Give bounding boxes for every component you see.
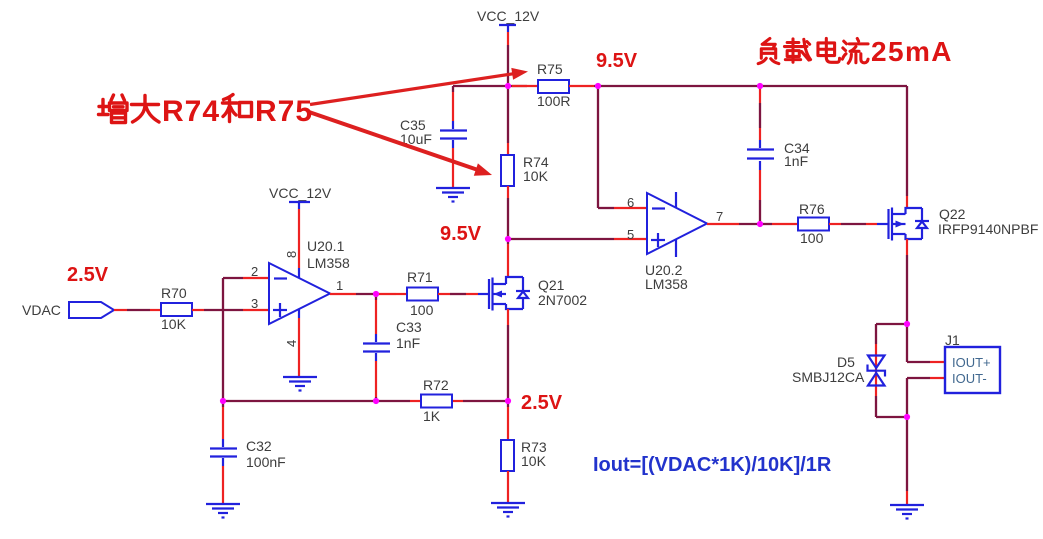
resistor R74 (501, 154, 549, 186)
power VCC_12V (top) (477, 8, 540, 32)
svg-text:10K: 10K (523, 168, 549, 184)
op-amp U20.1 (251, 238, 350, 347)
svg-text:2N7002: 2N7002 (538, 292, 587, 308)
capacitor C34 (747, 140, 810, 169)
transistor Q22 IRFP9140NPBF (889, 206, 1039, 241)
resistor R70 (161, 285, 192, 332)
wire C35 to ground (452, 140, 454, 187)
svg-text:SMBJ12CA: SMBJ12CA (792, 369, 865, 385)
capacitor C35 (400, 117, 467, 147)
svg-text:6: 6 (627, 195, 634, 210)
transistor Q21 2N7002 (489, 277, 587, 311)
svg-text:9.5V: 9.5V (596, 50, 638, 72)
svg-text:R70: R70 (161, 285, 187, 301)
svg-text:Q22: Q22 (939, 206, 966, 222)
wire Q21 source down (507, 309, 509, 401)
wire R75 to 9.5V junction (594, 85, 598, 87)
svg-text:IOUT-: IOUT- (952, 371, 987, 386)
svg-text:10K: 10K (521, 453, 547, 469)
svg-text:R74: R74 (162, 95, 220, 128)
svg-text:100nF: 100nF (246, 454, 286, 470)
svg-text:Q21: Q21 (538, 277, 565, 293)
resistor R72 (421, 377, 452, 424)
junction Q21 source / 2.5V rail (505, 398, 511, 404)
ground (C32) (206, 504, 240, 518)
svg-text:2.5V: 2.5V (521, 392, 563, 414)
svg-text:1nF: 1nF (396, 335, 420, 351)
svg-text:8: 8 (284, 251, 299, 258)
capacitor C32 (210, 438, 286, 470)
wire to J1 IOUT- (907, 378, 946, 417)
power VCC_12V (U20.1 pin 8) (269, 185, 332, 278)
wire 9.5V node 2 to pin 5 (508, 238, 647, 240)
junction Q22 drain node (904, 321, 910, 327)
wire R73 to ground (507, 471, 509, 502)
svg-text:100: 100 (800, 230, 824, 246)
svg-text:3: 3 (251, 296, 258, 311)
junction 9.5V node top (595, 83, 601, 89)
junction VCC column / top rail (505, 83, 511, 89)
wire C34 bottom branch (759, 161, 761, 224)
svg-text:VCC_12V: VCC_12V (477, 8, 540, 24)
svg-text:IOUT+: IOUT+ (952, 355, 991, 370)
diode D5 SMBJ12CA (792, 354, 885, 386)
svg-text:7: 7 (716, 209, 723, 224)
wire to D5 top (876, 324, 907, 396)
wire main output to ground (906, 417, 908, 504)
junction D5 bottom node (904, 414, 910, 420)
wire R74 bottom to 9.5V node 2 (507, 186, 509, 239)
annotation arrow (to R75) (310, 68, 528, 105)
svg-text:R75: R75 (537, 61, 563, 77)
svg-text:100: 100 (410, 302, 434, 318)
resistor R75 (512, 61, 594, 109)
svg-text:R72: R72 (423, 377, 449, 393)
svg-text:5: 5 (627, 227, 634, 242)
svg-text:VDAC: VDAC (22, 302, 61, 318)
wire Q22 drain down (906, 239, 908, 324)
annotation text 增大R74和R75 (99, 95, 252, 123)
svg-text:R75: R75 (255, 95, 313, 128)
annotation text 负载电流25mA (758, 38, 868, 63)
wire C34 top to rail (759, 86, 761, 148)
svg-text:IRFP9140NPBF: IRFP9140NPBF (938, 221, 1038, 237)
char 增 (99, 95, 128, 123)
wire pin 2 feedback (223, 278, 269, 401)
wire R76 to Q22 gate (829, 223, 889, 225)
resistor R73 (501, 439, 547, 471)
wire 2.5V rail (221, 400, 508, 402)
junction C32 / 2.5V rail (220, 398, 226, 404)
svg-text:25mA: 25mA (871, 36, 953, 67)
svg-text:J1: J1 (945, 332, 960, 348)
svg-text:R76: R76 (799, 201, 825, 217)
port VDAC (22, 302, 114, 318)
char 载 (784, 39, 810, 62)
svg-text:10K: 10K (161, 316, 187, 332)
resistor R76 (798, 201, 829, 246)
junction C33 / 2.5V rail (373, 398, 379, 404)
capacitor C33 (363, 319, 422, 352)
svg-text:LM358: LM358 (307, 255, 350, 271)
svg-text:2.5V: 2.5V (67, 264, 109, 286)
svg-text:1nF: 1nF (784, 153, 808, 169)
wire U20.1 output to node (330, 293, 376, 295)
junction U20.1 output / C33 (373, 291, 379, 297)
char 电 (818, 38, 840, 62)
char 和 (223, 95, 252, 122)
ground (C35) (436, 188, 470, 202)
ground (U20.1 pin 4) (283, 377, 317, 391)
char 流 (842, 38, 868, 63)
wire output node to R76 (760, 223, 798, 225)
junction U20.2 output / C34 bottom (757, 221, 763, 227)
wire D5 bottom to rail (876, 396, 907, 417)
svg-text:U20.1: U20.1 (307, 238, 345, 254)
wire 9.5V node down to pin 6 (598, 86, 647, 208)
svg-text:2: 2 (251, 264, 258, 279)
wire to J1 IOUT+ (907, 324, 946, 362)
svg-text:D5: D5 (837, 354, 855, 370)
svg-text:C32: C32 (246, 438, 272, 454)
wire R73 top (507, 401, 509, 440)
junction 9.5V node 2 (R74 bottom) (505, 236, 511, 242)
wire top rail left segment to C35 (453, 86, 527, 129)
wire U20.2 output (707, 223, 760, 225)
connector J1 (945, 332, 1000, 393)
svg-text:R71: R71 (407, 269, 433, 285)
wire C33 branch (375, 294, 377, 342)
char 负 (758, 38, 779, 63)
wire R74 top (507, 86, 509, 155)
svg-text:100R: 100R (537, 93, 570, 109)
svg-text:VCC_12V: VCC_12V (269, 185, 332, 201)
ground (R73) (491, 503, 525, 517)
svg-text:LM358: LM358 (645, 276, 688, 292)
wire pin 4 to ground (298, 309, 300, 376)
wire node to R71 (376, 293, 396, 295)
wire R71 to Q21 gate (438, 293, 489, 295)
wire C33 bottom to 2.5V rail (375, 353, 377, 401)
char 大 (132, 96, 160, 123)
svg-text:1: 1 (336, 278, 343, 293)
wire C32 to ground (222, 458, 224, 503)
svg-text:4: 4 (284, 340, 299, 347)
svg-text:9.5V: 9.5V (440, 223, 482, 245)
wire top rail right (598, 86, 907, 208)
svg-text:Iout=[(VDAC*1K)/10K]/1R: Iout=[(VDAC*1K)/10K]/1R (593, 454, 832, 476)
svg-text:C33: C33 (396, 319, 422, 335)
junction C34 top / top rail (757, 83, 763, 89)
wire VCC to top rail (507, 32, 509, 86)
svg-text:1K: 1K (423, 408, 441, 424)
wire VDAC to R70 (114, 309, 161, 311)
wire R70 to pin 3 (192, 309, 269, 311)
wire C32 branch (222, 401, 224, 447)
op-amp U20.2 (627, 192, 723, 292)
resistor R71 (407, 269, 438, 318)
ground (main right) (890, 505, 924, 519)
wire 9.5V node 2 down to Q21 drain (507, 239, 509, 277)
annotation arrow (to R74) (309, 112, 492, 176)
